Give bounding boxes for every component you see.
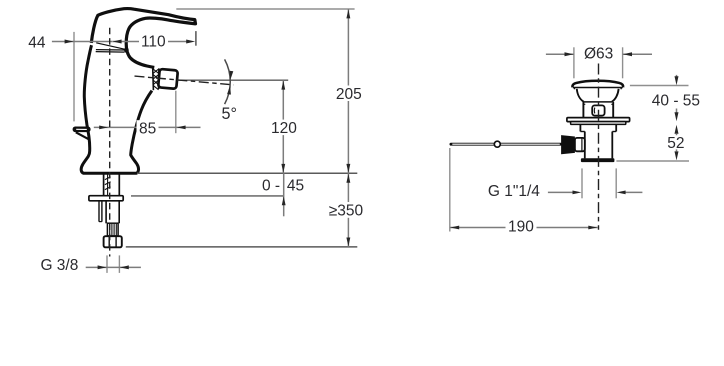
dim 52 arrows — [675, 125, 679, 134]
mounting flange nut — [89, 196, 123, 201]
dim 40-55 arrows — [675, 76, 679, 85]
dim 110 label — [139, 34, 168, 50]
drain tailpipe — [584, 132, 586, 159]
spray nozzle — [158, 69, 178, 89]
dim 120 line — [282, 80, 284, 173]
dim 190 extension line — [449, 148, 451, 232]
dim G3/8 arrows — [98, 265, 107, 269]
rod ball — [494, 141, 500, 147]
drain body — [582, 102, 584, 118]
lever rod — [451, 143, 561, 146]
svg-text:44: 44 — [28, 35, 46, 52]
svg-text:Ø63: Ø63 — [584, 46, 613, 63]
nozzle joint hatch — [152, 68, 155, 91]
dim 0-45 line — [283, 173, 285, 216]
dim G1-1/4 extension lines — [581, 168, 583, 198]
supply bottom reference line — [126, 246, 357, 248]
dim D63 arrows — [565, 52, 574, 56]
faucet cartridge collar — [96, 43, 124, 49]
dim 120 arrows — [281, 81, 285, 90]
supply pipe — [105, 201, 107, 223]
drain mid section — [579, 124, 581, 131]
tailpipe bottom band — [581, 158, 615, 162]
dim 0-45 arrow — [282, 196, 286, 205]
dim >=350 line — [347, 173, 349, 247]
40-55 top reference line — [630, 85, 689, 87]
svg-text:0 -: 0 - — [262, 177, 280, 194]
dim 44 arrow — [65, 40, 74, 44]
dim D63 extension lines — [573, 47, 575, 78]
5 degree arc arrows — [230, 71, 234, 80]
svg-text:110: 110 — [141, 34, 166, 51]
svg-text:40 - 55: 40 - 55 — [652, 93, 700, 110]
dim 85 extension line — [175, 91, 177, 134]
svg-text:85: 85 — [139, 121, 156, 138]
dim G1-1/4 arrows — [573, 191, 582, 195]
dim 110 arrows — [113, 40, 122, 44]
svg-text:190: 190 — [508, 219, 534, 236]
pop-up knob — [73, 127, 91, 133]
deck reference line — [137, 172, 357, 174]
svg-text:205: 205 — [336, 86, 362, 103]
svg-text:45: 45 — [287, 177, 304, 194]
dim 110 tick — [195, 31, 197, 46]
dim 44 line — [52, 41, 113, 43]
drain flange — [567, 118, 630, 122]
dim 85 label — [137, 120, 159, 135]
drain cap rim ticks — [573, 88, 575, 90]
dim 0-45 label — [261, 178, 282, 193]
5 degree arc — [225, 59, 231, 104]
dim 85 arrows — [99, 126, 108, 130]
hose nut — [104, 236, 122, 247]
nozzle tilted axis — [135, 76, 234, 85]
deck max thickness line — [131, 195, 284, 197]
dim 44 extension line — [73, 32, 75, 122]
svg-text:G 1"1/4: G 1"1/4 — [488, 183, 540, 200]
dim 190 label — [506, 220, 537, 235]
faucet centerline — [109, 28, 111, 257]
52 bottom reference line — [616, 160, 689, 162]
dim 205 arrows — [346, 9, 350, 18]
dim 120 label — [269, 120, 300, 136]
dim 205 line — [347, 9, 349, 173]
dim G3/8 line — [86, 266, 141, 268]
lever block — [561, 135, 575, 154]
faucet handle lever — [91, 9, 195, 68]
dim 190 arrows — [450, 226, 459, 230]
overflow window — [592, 105, 604, 115]
dim G3/8 extension lines — [106, 255, 108, 273]
dim 190 line — [450, 227, 598, 229]
dim >=350 arrows — [346, 174, 350, 183]
nozzle horizontal reference line — [178, 79, 289, 81]
dim G1-1/4 lines — [548, 191, 573, 193]
svg-text:52: 52 — [667, 135, 684, 152]
hose crimp ribs — [107, 223, 118, 236]
drain neck — [577, 89, 584, 102]
drain cap — [572, 81, 623, 88]
faucet body and base — [81, 45, 152, 173]
dim 85 line — [94, 126, 201, 128]
svg-text:≥350: ≥350 — [329, 202, 364, 219]
svg-text:120: 120 — [271, 120, 297, 137]
pop-up rod — [98, 201, 100, 222]
dim 40-55 lines — [676, 75, 678, 78]
dim D63 lines — [546, 53, 574, 55]
svg-text:G 3/8: G 3/8 — [40, 257, 78, 274]
shank threads — [103, 174, 105, 196]
svg-text:5°: 5° — [222, 105, 237, 123]
dim 205 label — [334, 86, 369, 102]
lever collar — [575, 138, 585, 151]
dim 110 line — [113, 41, 189, 43]
dim >=350 label — [326, 202, 367, 218]
drain centerline — [598, 64, 600, 230]
top extension line — [176, 8, 354, 10]
